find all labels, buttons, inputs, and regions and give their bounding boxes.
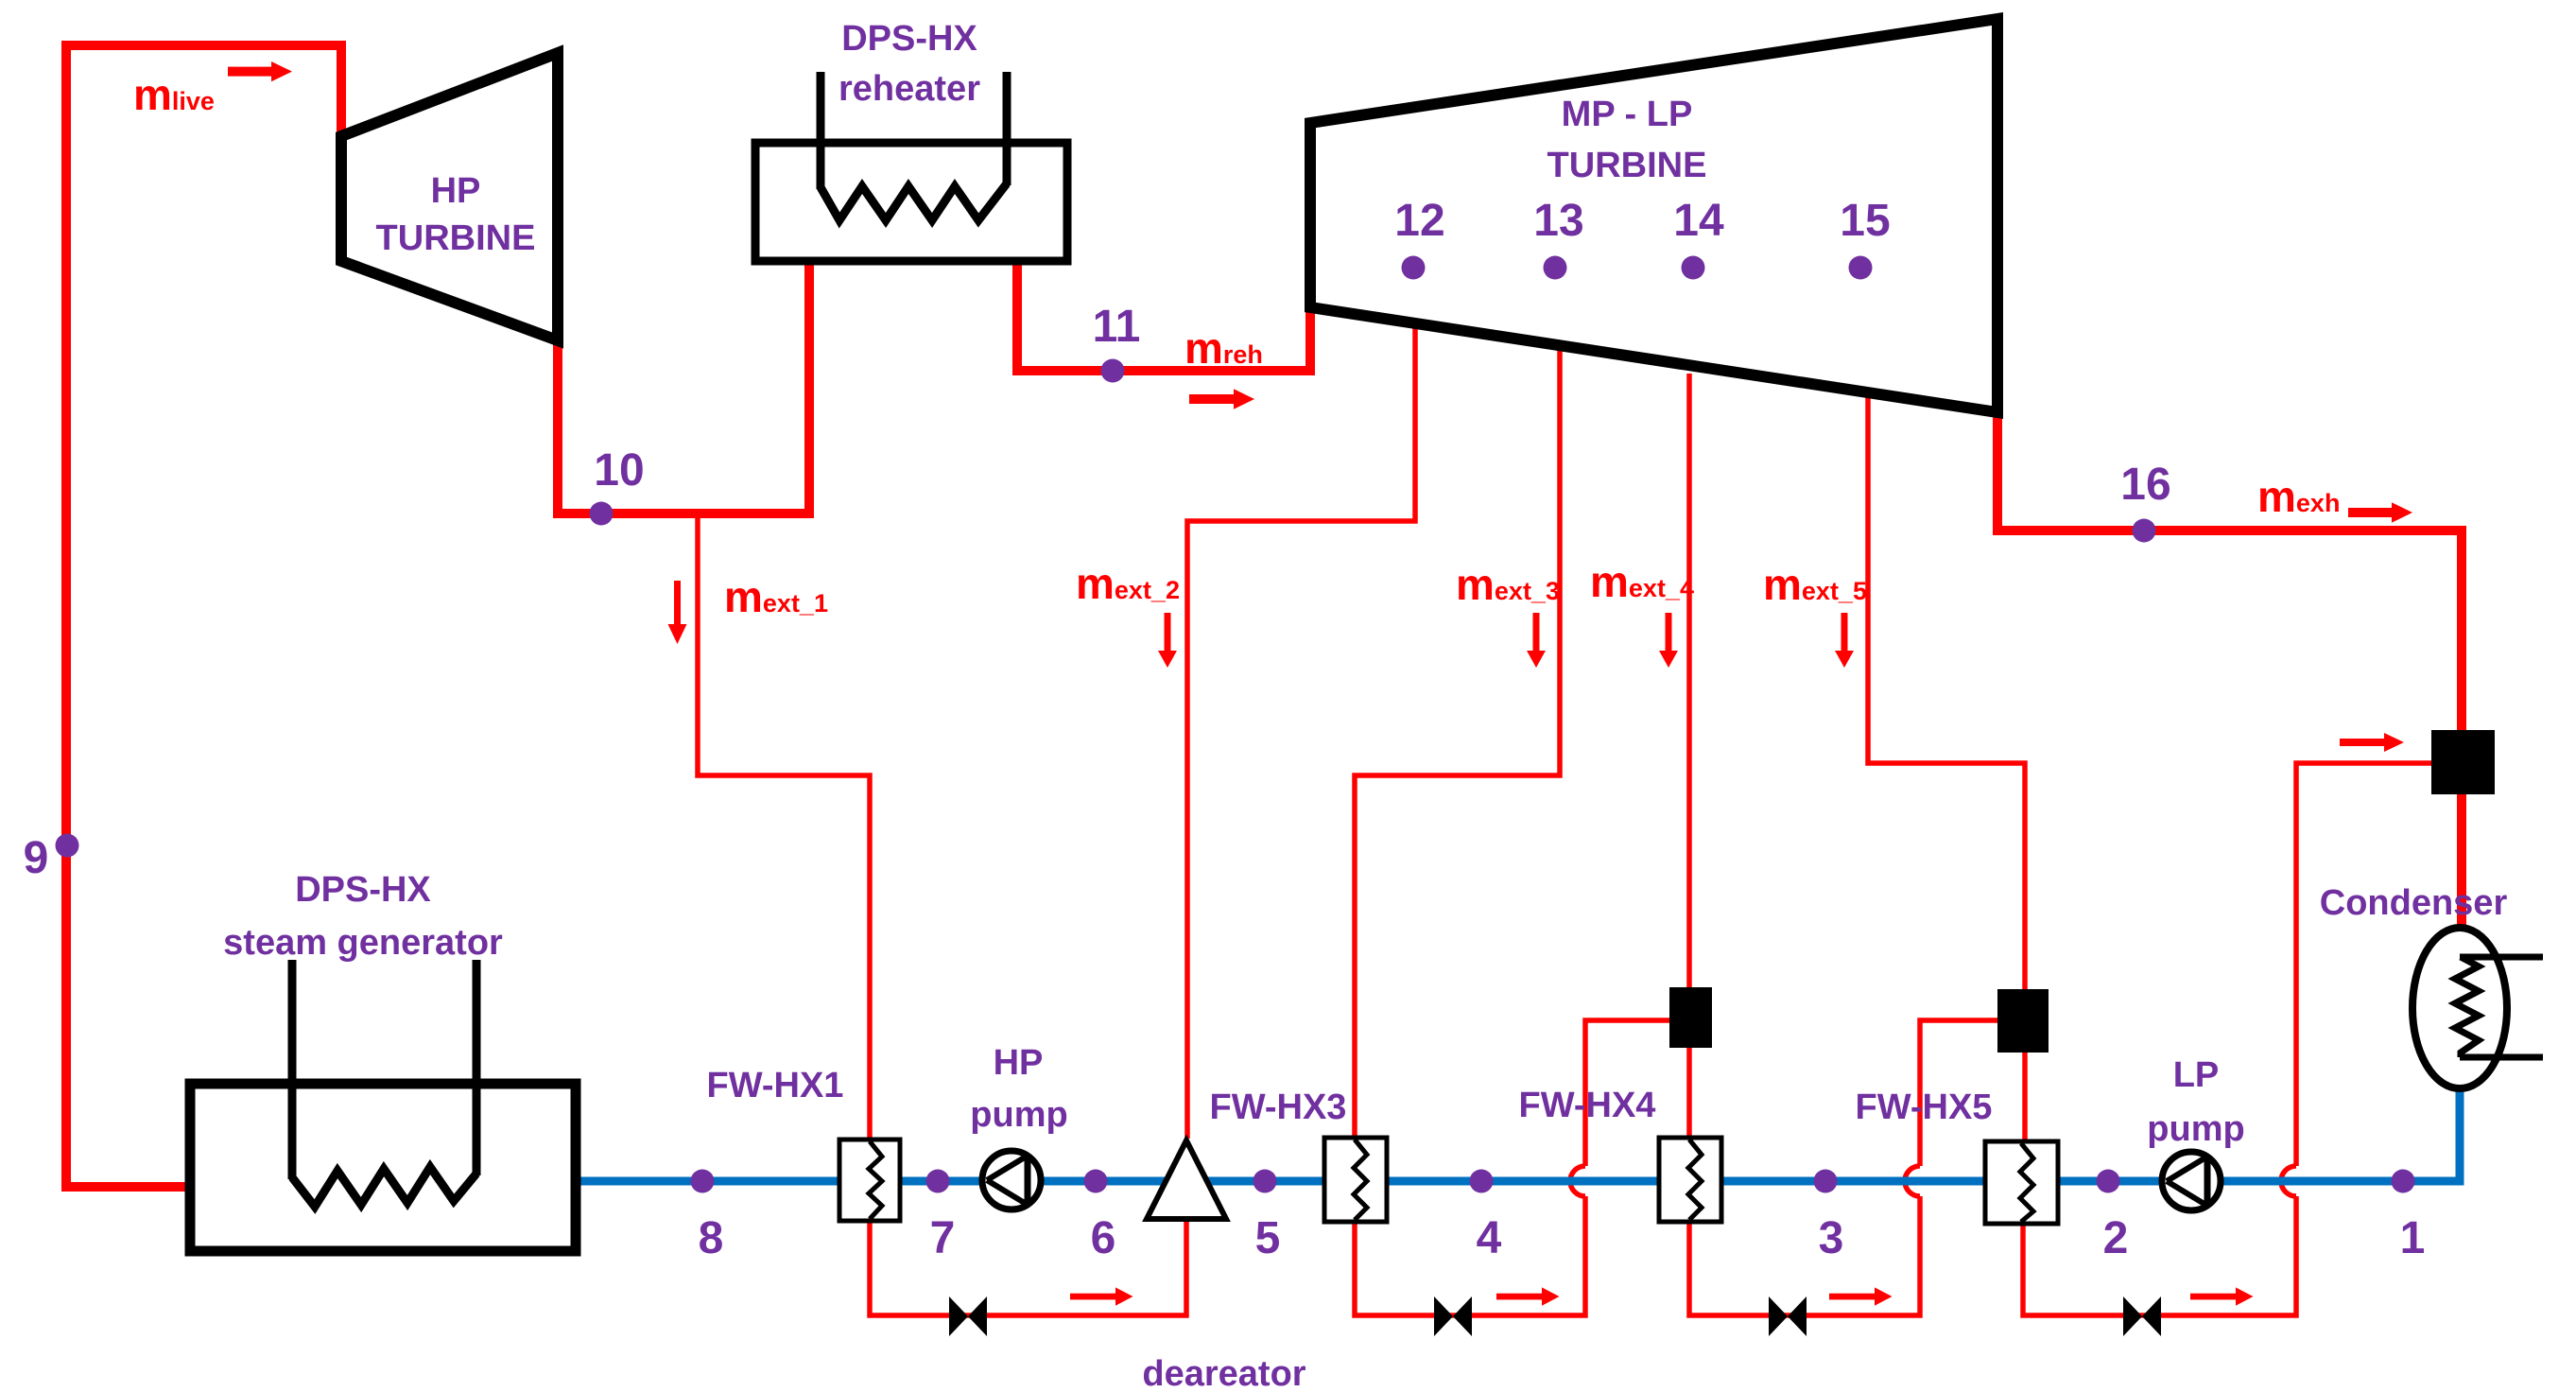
HP turbine: [341, 53, 558, 340]
valve FW-HX5 drain: [2123, 1296, 2161, 1336]
svg-text:8: 8: [699, 1213, 724, 1263]
HP pump: [982, 1151, 1041, 1209]
FW-HX4 heater: [1659, 1138, 1721, 1222]
node dot 9: [56, 834, 79, 858]
arrow drain FW-HX4: [1829, 1287, 1893, 1305]
svg-text:13: 13: [1533, 196, 1583, 246]
svg-text:reheater: reheater: [838, 69, 980, 109]
svg-text:4: 4: [1477, 1213, 1502, 1263]
wire reheater outlet to MP-LP turbine inlet: [1017, 259, 1310, 371]
mixer square FW-HX5: [1997, 989, 2049, 1053]
arrow m_reh: [1189, 389, 1254, 409]
wire MP-LP turbine exhaust to condenser: [1997, 405, 2462, 929]
svg-text:deareator: deareator: [1142, 1354, 1305, 1392]
arrow drain FW-HX3: [1496, 1287, 1560, 1305]
svg-text:16: 16: [2120, 460, 2170, 510]
down arrow m_ext_2: [1158, 613, 1177, 668]
wire FW-HX1 drain to deareator: [870, 1217, 1186, 1315]
wire HP turbine exhaust to reheater inlet: [558, 259, 809, 513]
down arrow m_ext_5: [1835, 613, 1854, 668]
svg-text:FW-HX1: FW-HX1: [707, 1066, 844, 1105]
valve FW-HX3 drain: [1434, 1296, 1472, 1336]
svg-text:TURBINE: TURBINE: [376, 218, 536, 258]
line hop over feedwater line: [1570, 1166, 1585, 1196]
svg-text:HP: HP: [994, 1043, 1044, 1083]
svg-text:9: 9: [24, 833, 49, 883]
LP pump: [2162, 1152, 2221, 1210]
down arrow m_ext_4: [1659, 613, 1678, 668]
wire extraction m_ext_4 to FW-HX4: [1686, 374, 1692, 1140]
svg-text:14: 14: [1673, 196, 1724, 246]
FW-HX5 heater: [1985, 1141, 2058, 1224]
svg-text:15: 15: [1840, 196, 1890, 246]
node dots 12-15 inside MP-LP turbine: [1402, 256, 1426, 280]
DPS-HX reheater: [755, 72, 1067, 261]
svg-text:pump: pump: [2147, 1109, 2244, 1149]
svg-text:TURBINE: TURBINE: [1547, 146, 1707, 185]
arrow drain FW-HX1: [1070, 1287, 1133, 1305]
wire FW-HX4 drain to FW-HX5 mixer: [1689, 1196, 1920, 1315]
down arrow m_ext_3: [1527, 613, 1546, 668]
arrow m_live: [228, 61, 292, 81]
svg-text:FW-HX5: FW-HX5: [1856, 1087, 1993, 1127]
svg-text:5: 5: [1255, 1213, 1281, 1263]
MP-LP turbine: [1310, 19, 1997, 412]
svg-text:HP: HP: [431, 171, 481, 211]
svg-text:1: 1: [2400, 1213, 2426, 1263]
svg-text:LP: LP: [2173, 1055, 2220, 1095]
valve FW-HX4 drain: [1769, 1296, 1807, 1336]
condenser: [2412, 928, 2543, 1088]
arrow m_exh: [2348, 502, 2412, 522]
line hop over feedwater line: [1905, 1166, 1920, 1196]
svg-text:FW-HX3: FW-HX3: [1210, 1087, 1347, 1127]
mixer square FW-HX4: [1669, 987, 1712, 1048]
valve FW-HX1 drain: [949, 1296, 987, 1336]
wire FW-HX3 drain to FW-HX4 mixer: [1355, 1196, 1585, 1315]
DPS-HX steam generator: [190, 960, 576, 1251]
wire extraction m_ext_1 to FW-HX1: [698, 512, 870, 1141]
svg-text:3: 3: [1819, 1213, 1844, 1263]
node dot 11: [1101, 359, 1125, 383]
arrow into condenser mixer: [2340, 733, 2404, 752]
svg-text:DPS-HX: DPS-HX: [295, 870, 431, 910]
deareator: [1147, 1140, 1226, 1219]
wire m_live: steam generator to HP turbine inlet: [66, 45, 341, 1187]
svg-text:steam generator: steam generator: [223, 923, 503, 963]
svg-text:2: 2: [2103, 1213, 2129, 1263]
svg-text:12: 12: [1394, 196, 1444, 246]
svg-text:7: 7: [930, 1213, 956, 1263]
mixer square condenser: [2431, 730, 2495, 794]
node dots 1-8 on feedwater line: [2392, 1170, 2415, 1193]
wire extraction m_ext_3 to FW-HX3: [1355, 339, 1560, 1140]
FW-HX1 heater: [839, 1140, 900, 1221]
node dot 16: [2133, 519, 2156, 543]
wire FW-HX5 drain to condenser mixer: [2023, 1196, 2296, 1315]
wire feedwater main line (blue): [576, 1086, 2460, 1181]
line hop over feedwater line: [2281, 1166, 2296, 1196]
svg-text:11: 11: [1093, 302, 1141, 352]
svg-text:pump: pump: [970, 1095, 1067, 1135]
svg-text:MP - LP: MP - LP: [1562, 95, 1693, 134]
wire extraction m_ext_2 to deareator: [1187, 322, 1415, 1139]
arrow drain FW-HX5: [2190, 1287, 2254, 1305]
node dot 10: [590, 502, 614, 526]
svg-text:FW-HX4: FW-HX4: [1519, 1086, 1656, 1125]
FW-HX3 heater: [1324, 1138, 1387, 1222]
wire extraction m_ext_5 to FW-HX5: [1868, 392, 2025, 1143]
down arrow m_ext_1: [668, 581, 687, 644]
svg-text:10: 10: [594, 445, 644, 496]
svg-text:6: 6: [1091, 1213, 1116, 1263]
svg-text:DPS-HX: DPS-HX: [841, 19, 977, 59]
svg-text:Condenser: Condenser: [2320, 883, 2508, 923]
